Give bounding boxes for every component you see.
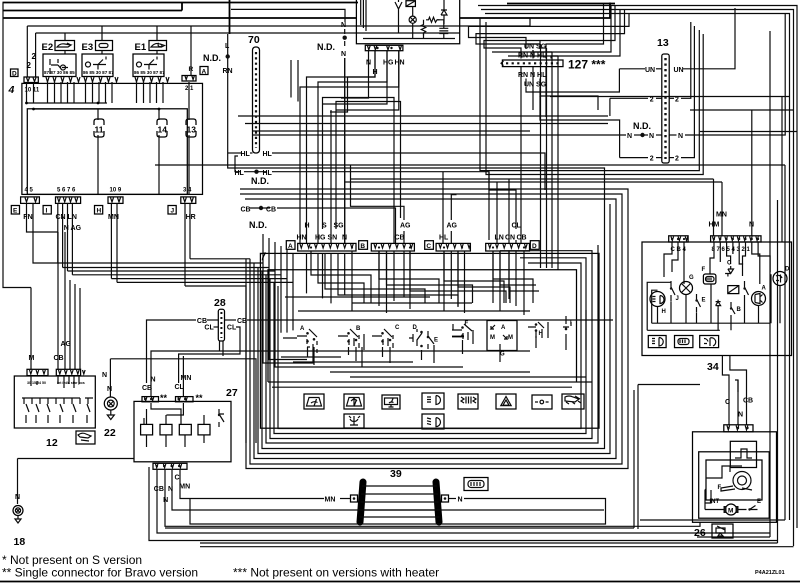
connector strip under device bbox=[365, 45, 403, 50]
icon rear wiper bbox=[382, 395, 400, 409]
wires J group down bbox=[184, 203, 186, 286]
svg-text:CL: CL bbox=[227, 324, 237, 331]
svg-text:F: F bbox=[702, 267, 706, 273]
wire HL row2 bracket bbox=[235, 156, 240, 172]
svg-text:LN: LN bbox=[495, 235, 504, 242]
row UN: left wire bbox=[619, 68, 645, 70]
lamp H bbox=[650, 292, 665, 307]
strip 127 dots bbox=[506, 62, 560, 64]
svg-text:HG: HG bbox=[315, 235, 326, 242]
svg-text:**: ** bbox=[196, 393, 204, 403]
wire H stem bbox=[307, 51, 376, 243]
connector H letter bbox=[95, 206, 103, 215]
wire SN stem bbox=[330, 110, 332, 243]
wires relay pins into box bbox=[48, 82, 75, 103]
icon 26 bbox=[712, 524, 733, 538]
svg-text:E: E bbox=[434, 338, 438, 344]
svg-text:MN: MN bbox=[179, 484, 190, 491]
wire N above bbox=[532, 50, 534, 59]
svg-text:*** Not present on versions wi: *** Not present on versions with heater bbox=[233, 566, 439, 580]
row 2 upper: left wire bbox=[610, 97, 648, 99]
svg-text:N.D.: N.D. bbox=[251, 176, 269, 186]
svg-text:CB: CB bbox=[266, 207, 276, 214]
wires to box12 connector 2 bbox=[69, 280, 71, 369]
row 2 lower bbox=[620, 157, 648, 159]
svg-text:CN LN: CN LN bbox=[56, 214, 77, 221]
svg-text:SN: SN bbox=[328, 235, 338, 242]
lamp G bbox=[680, 282, 693, 295]
left verticals joining bundles bbox=[246, 259, 278, 318]
switch F bbox=[452, 321, 473, 344]
svg-text:B: B bbox=[737, 307, 742, 313]
wire SG above tall bbox=[539, 41, 541, 49]
svg-text:M: M bbox=[508, 335, 513, 341]
wires 27 down from top bbox=[150, 375, 152, 396]
svg-text:HL: HL bbox=[439, 235, 449, 242]
svg-text:A: A bbox=[300, 326, 305, 332]
wire S stem bbox=[323, 98, 395, 244]
relay E2 body bbox=[43, 54, 76, 77]
fuse 11 bbox=[94, 119, 104, 137]
svg-text:10 9: 10 9 bbox=[110, 188, 122, 194]
device lamp circle bbox=[409, 16, 416, 23]
box 26 pulse unit bbox=[730, 441, 756, 467]
switch C bbox=[372, 325, 400, 348]
connector strip 70 body bbox=[253, 47, 260, 153]
bottom bus 34 bbox=[652, 322, 770, 324]
box12 connector block 1 bbox=[27, 369, 48, 375]
svg-text:N: N bbox=[678, 133, 683, 140]
icon 39 bbox=[464, 478, 488, 491]
connector 26 bbox=[724, 425, 753, 432]
inner unit box bbox=[268, 270, 577, 382]
svg-text:A: A bbox=[288, 243, 293, 250]
box34 internal wire drops bbox=[664, 242, 684, 284]
wire HG stem bbox=[318, 51, 387, 243]
right edge horizontals bbox=[550, 96, 790, 98]
svg-text:MN: MN bbox=[181, 375, 192, 382]
relay 34 bbox=[728, 286, 739, 294]
svg-text:M: M bbox=[29, 355, 35, 362]
fuse 13 bbox=[186, 119, 196, 137]
svg-text:E2: E2 bbox=[42, 42, 54, 53]
svg-text:39: 39 bbox=[390, 468, 402, 480]
svg-text:HL: HL bbox=[241, 151, 251, 158]
svg-text:N: N bbox=[627, 133, 632, 140]
connector 27 bottom bbox=[153, 463, 187, 469]
defroster 39 right bar bbox=[436, 482, 439, 522]
node HL row2 dot bbox=[254, 170, 258, 174]
wire HL above bbox=[545, 50, 547, 59]
svg-text:E3: E3 bbox=[82, 42, 94, 53]
switch 27 bbox=[219, 409, 224, 427]
svg-text:UN: UN bbox=[674, 67, 684, 74]
connector A letter bbox=[286, 241, 295, 250]
svg-text:2: 2 bbox=[650, 156, 654, 163]
svg-text:A: A bbox=[202, 69, 207, 76]
box12 connector block 2 bbox=[56, 369, 80, 375]
icon low beam bbox=[422, 414, 444, 429]
internal routing top half bbox=[307, 251, 525, 315]
long line y123 bbox=[245, 123, 608, 125]
internal bottom routing bbox=[263, 310, 586, 367]
connector strip A bbox=[298, 243, 356, 251]
svg-text:UN SG: UN SG bbox=[524, 82, 547, 89]
connector 2pin right bbox=[182, 76, 196, 82]
svg-text:H: H bbox=[97, 208, 102, 215]
defroster 39 left bar bbox=[360, 482, 363, 522]
wire top line 1 bbox=[3, 2, 359, 4]
wire HG down bbox=[323, 51, 388, 104]
internal corner routing bbox=[311, 251, 539, 307]
wire FN down from E bbox=[27, 203, 59, 232]
svg-text:C: C bbox=[395, 325, 400, 331]
svg-text:E: E bbox=[702, 298, 706, 304]
svg-text:2: 2 bbox=[27, 61, 32, 70]
svg-text:E: E bbox=[757, 499, 761, 505]
strip 70 dots bbox=[255, 52, 257, 148]
horn A bbox=[752, 292, 766, 306]
device internal joins bbox=[399, 6, 444, 38]
wiper cam mechanism bbox=[706, 460, 762, 500]
svg-text:C: C bbox=[175, 475, 180, 482]
relay E1 icon bbox=[149, 41, 167, 51]
wires above 127: RN bbox=[520, 50, 522, 59]
svg-text:B: B bbox=[356, 326, 361, 332]
svg-text:4 5: 4 5 bbox=[25, 188, 34, 194]
wire CB row bbox=[250, 207, 270, 209]
wire top line 2 bbox=[3, 10, 182, 12]
connector strip 127 body bbox=[502, 60, 563, 67]
wire HL row1 right run bbox=[272, 153, 545, 190]
wires below 127 bbox=[521, 67, 546, 87]
svg-text:C: C bbox=[426, 243, 431, 250]
icon wiper washer bbox=[344, 394, 364, 409]
connector E letter bbox=[11, 206, 19, 215]
svg-text:N.D.: N.D. bbox=[249, 220, 267, 230]
switch E bbox=[697, 294, 701, 312]
ground 22 circle bbox=[104, 397, 117, 410]
svg-text:M: M bbox=[490, 335, 495, 341]
svg-text:UN: UN bbox=[645, 67, 655, 74]
wire CB right run bbox=[277, 208, 396, 240]
device diode bbox=[441, 0, 447, 24]
wire junction lines inside box4 bbox=[27, 83, 34, 103]
wire 2 right lower bbox=[669, 157, 674, 159]
wire HL row1 mid bbox=[250, 152, 253, 154]
svg-text:N: N bbox=[341, 22, 346, 29]
strip 28 bottom wires bbox=[220, 341, 224, 356]
box 34 outline bbox=[642, 242, 792, 356]
long line y116 bbox=[238, 115, 608, 117]
wire N stem bbox=[344, 58, 346, 243]
switch J bbox=[671, 281, 675, 301]
svg-text:HG: HG bbox=[383, 60, 394, 67]
svg-text:**: ** bbox=[160, 393, 168, 403]
icon row 1 box wiper bbox=[304, 394, 324, 409]
wire top right nest 2 bbox=[481, 10, 794, 547]
svg-text:N.D.: N.D. bbox=[203, 53, 221, 63]
svg-text:G: G bbox=[689, 275, 694, 281]
svg-text:5 6 7 6: 5 6 7 6 bbox=[57, 188, 76, 194]
right frame verticals low bbox=[697, 536, 770, 538]
wire CB down to box12 bbox=[57, 232, 59, 369]
svg-text:SG: SG bbox=[334, 223, 345, 230]
connector strip C bbox=[436, 243, 470, 251]
switch E bbox=[427, 331, 438, 349]
device inner wires left nest bbox=[361, 0, 366, 31]
svg-text:D: D bbox=[785, 267, 790, 273]
defroster grid lines bbox=[360, 486, 440, 517]
relay E3 icon bbox=[96, 41, 113, 51]
svg-text:22: 22 bbox=[104, 427, 116, 439]
svg-text:CB: CB bbox=[154, 486, 164, 493]
wire right col 2 bbox=[777, 200, 779, 543]
wire vertical joiner bbox=[181, 3, 183, 11]
wire HN down bbox=[336, 51, 399, 110]
wire M down to box12 bbox=[30, 288, 32, 370]
device capacitor bbox=[439, 26, 448, 37]
wires down to 26 bbox=[728, 392, 730, 425]
wire L down with junction bbox=[228, 34, 605, 208]
nested corner lines top of B strip bbox=[290, 60, 292, 98]
inner partition lines bbox=[268, 381, 592, 383]
svg-text:N: N bbox=[163, 497, 168, 504]
svg-text:N: N bbox=[15, 494, 20, 501]
relay pins arrows E3 bbox=[84, 77, 118, 82]
svg-text:A: A bbox=[501, 325, 506, 331]
connector B letter bbox=[359, 241, 368, 250]
box 26 inner bbox=[699, 452, 770, 518]
box 27 bbox=[134, 401, 231, 461]
internal long rails bbox=[285, 297, 530, 311]
connector A box letter bbox=[200, 67, 208, 75]
wire feed down to pin11 bbox=[35, 33, 37, 77]
wire HL top corner 1 bbox=[546, 4, 604, 51]
svg-text:N: N bbox=[649, 133, 654, 140]
wire bottom full line bbox=[0, 581, 800, 583]
wire AG B lower bbox=[403, 231, 405, 243]
svg-text:N: N bbox=[738, 412, 743, 419]
svg-text:14: 14 bbox=[158, 125, 168, 135]
relay E2 icon bbox=[55, 41, 75, 51]
wires from left bundle into box bbox=[260, 263, 293, 282]
svg-text:CB: CB bbox=[743, 398, 753, 405]
svg-text:HR: HR bbox=[186, 214, 196, 221]
svg-text:28: 28 bbox=[214, 297, 226, 309]
svg-text:18: 18 bbox=[14, 536, 26, 548]
fuse 14 bbox=[157, 119, 167, 137]
svg-text:13: 13 bbox=[187, 125, 197, 135]
wire below UN down-right to 13 bbox=[526, 87, 548, 92]
device resistor horizontal bbox=[426, 17, 440, 22]
box 27 internals: 4 relays bbox=[141, 424, 153, 435]
wires I group down bbox=[57, 203, 59, 263]
box 26 outline bbox=[693, 432, 777, 523]
icon hazard triangle bbox=[496, 394, 516, 409]
device box top middle outline bbox=[356, 0, 459, 44]
wire UN top corner bbox=[469, 14, 630, 42]
device resistor vertical bbox=[421, 22, 425, 36]
switch unit 7 outline bbox=[260, 253, 599, 428]
svg-text:HN: HN bbox=[395, 60, 405, 67]
switch D bbox=[409, 325, 423, 347]
svg-text:D: D bbox=[532, 243, 537, 250]
connector I letter bbox=[43, 206, 51, 215]
icon box12 bbox=[76, 431, 95, 444]
svg-text:86 85 30 87 87: 86 85 30 87 87 bbox=[134, 70, 165, 75]
device inner bus bbox=[363, 38, 455, 40]
wire CB B stem bbox=[395, 240, 397, 243]
wire inner loop top bbox=[27, 18, 530, 26]
svg-text:27: 27 bbox=[226, 387, 238, 399]
device relay small rect bbox=[406, 1, 415, 7]
svg-text:86 85 30 87 87: 86 85 30 87 87 bbox=[83, 70, 114, 75]
nested routing below box7 bbox=[240, 189, 628, 469]
svg-text:** Single connector for Bravo: ** Single connector for Bravo version bbox=[2, 566, 198, 580]
wire H down-left bbox=[330, 51, 375, 112]
switch B bbox=[731, 302, 735, 319]
svg-text:8 7 6 5 4 3 2 1: 8 7 6 5 4 3 2 1 bbox=[712, 247, 751, 253]
connector strip B bbox=[371, 243, 414, 251]
wire N 22 bbox=[109, 359, 111, 397]
relay pins arrows E2 bbox=[46, 77, 80, 82]
box 12 outline bbox=[14, 376, 95, 428]
wiper motor M bbox=[726, 504, 737, 515]
fusebox 4 outline bbox=[22, 83, 203, 194]
icon rear fog bbox=[562, 394, 584, 409]
svg-text:3 4: 3 4 bbox=[183, 188, 192, 194]
connector D box letter bbox=[11, 69, 19, 77]
wire HN stem bbox=[300, 51, 399, 243]
bundle horizontals to right bbox=[58, 262, 261, 264]
wire HL row2 right run bbox=[272, 172, 489, 240]
wire CB D stem bbox=[520, 105, 522, 243]
svg-text:G: G bbox=[500, 352, 505, 358]
wire right col 1 bbox=[769, 31, 771, 537]
wire feed down to pin10 bbox=[26, 26, 28, 77]
wire HL row2 bbox=[244, 171, 267, 173]
svg-text:CB: CB bbox=[54, 355, 64, 362]
wire below RN/N/HL down bbox=[521, 77, 546, 117]
wire 18 horizontal bbox=[18, 458, 135, 460]
wire N feed from top bbox=[231, 9, 345, 22]
svg-text:J: J bbox=[676, 296, 679, 302]
ground 18 circle bbox=[13, 506, 23, 516]
tick 2 upper bbox=[656, 97, 662, 99]
relay icon feeds bbox=[65, 26, 191, 60]
icon fog bbox=[458, 394, 478, 409]
icon boxes bottom 34 bbox=[648, 336, 666, 348]
wire HL row1 left bbox=[228, 152, 241, 154]
svg-text:N: N bbox=[107, 386, 112, 393]
wire big enclosure top bbox=[3, 17, 357, 19]
node N.D. dot mid bbox=[343, 36, 347, 40]
connector D letter bbox=[530, 241, 539, 250]
lamp D bbox=[773, 272, 787, 286]
row N: left long wire bbox=[252, 134, 626, 136]
svg-text:FN: FN bbox=[23, 214, 32, 221]
wire AG down bbox=[64, 232, 66, 369]
svg-text:N: N bbox=[341, 51, 346, 58]
svg-text:34: 34 bbox=[707, 361, 719, 373]
switch G box bbox=[487, 321, 517, 358]
wire battery feed thick pair bbox=[229, 0, 231, 34]
tick UN bbox=[656, 68, 662, 70]
switch B bbox=[338, 326, 364, 350]
svg-text:E1: E1 bbox=[135, 42, 147, 53]
switch A bbox=[297, 326, 317, 353]
svg-text:HL: HL bbox=[263, 151, 273, 158]
svg-text:N: N bbox=[458, 497, 463, 504]
svg-text:M: M bbox=[728, 508, 733, 515]
wire 22 to right bbox=[110, 359, 256, 443]
connector strip D bbox=[486, 243, 530, 251]
device V sensor bbox=[395, 0, 402, 23]
wire top right nest 1 bbox=[478, 6, 797, 529]
wires fuses vertical bbox=[98, 82, 189, 194]
svg-text:2: 2 bbox=[675, 96, 679, 103]
routing box around 13 outer bbox=[480, 18, 699, 171]
wire N 39 right bbox=[449, 498, 457, 500]
wire UN left feed bbox=[548, 69, 619, 92]
svg-text:I: I bbox=[46, 208, 48, 215]
connector 34 left bbox=[669, 236, 688, 242]
wire top right nest 3 bbox=[485, 14, 790, 521]
bottom bundle lines bbox=[165, 470, 700, 526]
icon headlight hi bbox=[422, 393, 444, 409]
wire corners right going down 1 bbox=[533, 6, 611, 53]
wire inner loop 2 bbox=[36, 32, 460, 34]
svg-text:CN: CN bbox=[505, 235, 515, 242]
box 27 internal wires bbox=[144, 403, 204, 447]
connector C letter bbox=[425, 241, 434, 250]
svg-text:H: H bbox=[662, 309, 666, 315]
wire left outer vertical bbox=[3, 3, 31, 288]
wire 638 down bbox=[637, 385, 639, 530]
svg-text:CB: CB bbox=[241, 207, 251, 214]
relay E1 body bbox=[133, 54, 164, 77]
svg-text:E: E bbox=[13, 208, 18, 215]
ground 18 arrow bbox=[15, 516, 21, 524]
svg-text:P4A21ZL01: P4A21ZL01 bbox=[755, 570, 785, 576]
svg-text:2: 2 bbox=[650, 96, 654, 103]
relay E3 body bbox=[82, 54, 113, 77]
wire top right heavy segment bbox=[507, 3, 615, 5]
switch H bbox=[528, 322, 548, 338]
wire RN top corner bbox=[484, 6, 615, 51]
wire corners right going down 2 bbox=[551, 10, 620, 59]
defroster terminals bbox=[351, 495, 358, 502]
wire AG B stem bbox=[351, 165, 405, 220]
relay pins arrows E1 bbox=[135, 77, 169, 82]
svg-text:B: B bbox=[360, 243, 365, 250]
internal verticals entering left bbox=[263, 234, 293, 335]
icon row 2 washer pump bbox=[344, 414, 364, 428]
ground 22 arrow bbox=[107, 410, 114, 420]
svg-text:2: 2 bbox=[32, 52, 37, 61]
svg-text:CL: CL bbox=[204, 324, 214, 331]
wire UN right bbox=[683, 8, 735, 69]
wire N27 up bbox=[151, 351, 530, 375]
svg-text:A: A bbox=[762, 286, 767, 292]
wire LN stem bbox=[496, 182, 498, 243]
svg-text:13: 13 bbox=[657, 37, 669, 49]
wire MN 39 bbox=[340, 498, 351, 500]
wire HL C stem bbox=[442, 172, 444, 243]
wire 18 vertical bbox=[17, 459, 19, 505]
node CB dot bbox=[259, 206, 263, 210]
